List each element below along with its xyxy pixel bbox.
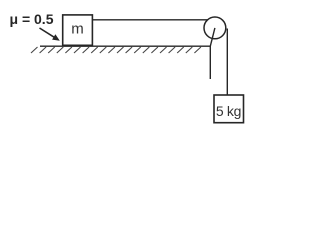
- pulley: [204, 17, 226, 39]
- svg-text:m: m: [71, 21, 84, 38]
- svg-text:5 kg: 5 kg: [216, 103, 241, 119]
- table right edge: [209, 46, 211, 79]
- block 5 kg: [214, 95, 244, 123]
- pulley bracket: [210, 28, 215, 46]
- arrow pointing to surface: [40, 28, 60, 41]
- svg-text:μ = 0.5: μ = 0.5: [10, 11, 54, 27]
- string from block m to pulley: [92, 19, 210, 21]
- block m: [63, 15, 93, 45]
- hatching (rough surface): [31, 47, 201, 53]
- hanging string: [226, 29, 228, 96]
- table surface line: [40, 45, 211, 47]
